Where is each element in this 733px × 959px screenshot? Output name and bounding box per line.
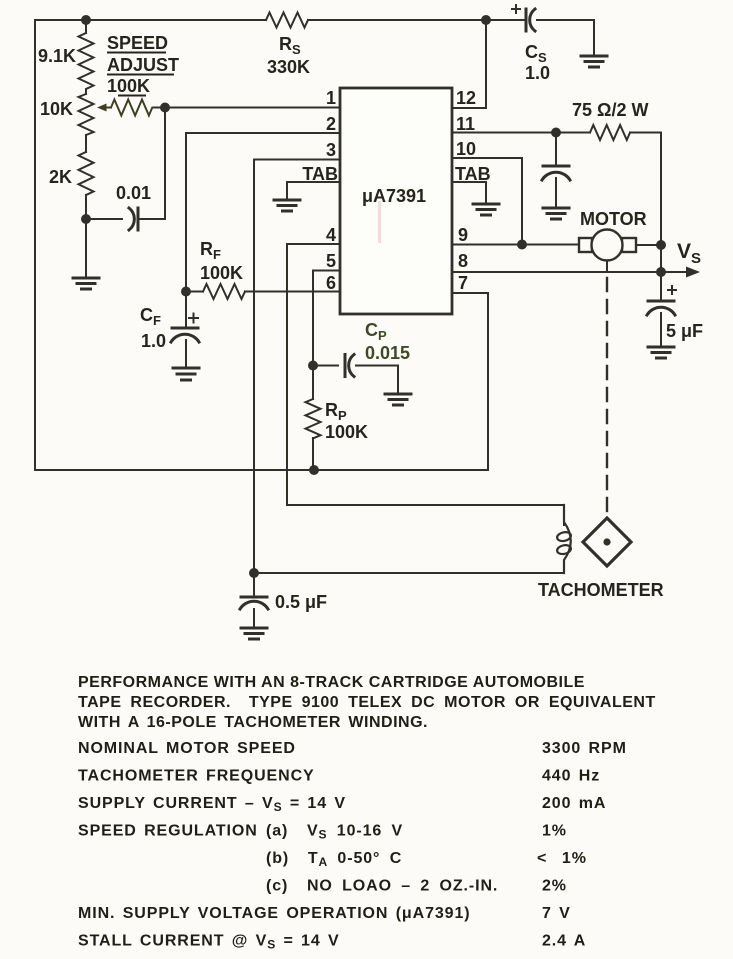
svg-text:7: 7 xyxy=(458,273,468,293)
svg-text:1%: 1% xyxy=(542,823,567,840)
svg-text:9: 9 xyxy=(458,225,468,245)
capacitor pin11 bypass xyxy=(542,133,570,209)
svg-text:3: 3 xyxy=(326,140,336,160)
IC pin numbers left xyxy=(302,88,338,293)
resistor 75ohm xyxy=(590,125,630,140)
svg-text:3300 RPM: 3300 RPM xyxy=(542,740,627,757)
resistor RF 100K xyxy=(203,284,245,299)
svg-text:(b) TA 0-50° C: (b) TA 0-50° C xyxy=(266,850,402,869)
svg-text:10K: 10K xyxy=(40,99,73,119)
svg-text:4: 4 xyxy=(326,225,336,245)
TAB right ground lead xyxy=(452,182,486,204)
wire tach bottom line xyxy=(254,572,564,574)
wire 0.01 line xyxy=(86,218,165,220)
spec stall current xyxy=(78,933,586,952)
svg-text:1.0: 1.0 xyxy=(141,331,166,351)
ground TAB left xyxy=(274,200,300,211)
capacitor 0.01 xyxy=(129,208,138,230)
svg-text:2K: 2K xyxy=(49,167,72,187)
svg-text:100K: 100K xyxy=(325,422,368,442)
svg-text:TACHOMETER: TACHOMETER xyxy=(538,580,664,600)
svg-text:SPEED REGULATION: SPEED REGULATION xyxy=(78,823,258,840)
svg-text:ADJUST: ADJUST xyxy=(107,55,179,75)
svg-text:100K: 100K xyxy=(107,76,150,96)
resistor RS 330K xyxy=(266,13,308,28)
TAB left ground lead xyxy=(287,182,340,200)
wire pin11 route xyxy=(452,133,661,246)
svg-text:1: 1 xyxy=(326,88,336,108)
svg-text:STALL CURRENT @ VS = 14 V: STALL CURRENT @ VS = 14 V xyxy=(78,933,340,952)
svg-text:1.0: 1.0 xyxy=(525,63,550,83)
svg-text:SUPPLY CURRENT – VS = 14 V: SUPPLY CURRENT – VS = 14 V xyxy=(78,795,346,814)
svg-text:PERFORMANCE WITH AN 8-TRACK CA: PERFORMANCE WITH AN 8-TRACK CARTRIDGE AU… xyxy=(78,674,585,691)
resistor 2K xyxy=(79,152,94,195)
tachometer pickup diamond xyxy=(583,518,631,566)
svg-text:WITH A 16-POLE TACHOMETER WIND: WITH A 16-POLE TACHOMETER WINDING. xyxy=(78,714,428,731)
wire RF line xyxy=(186,291,340,293)
svg-text:6: 6 xyxy=(326,273,336,293)
wire pin7 riser xyxy=(452,293,488,470)
ground 0.5uF xyxy=(241,628,267,639)
wire pin4 route xyxy=(287,244,564,525)
svg-text:8: 8 xyxy=(458,251,468,271)
spec speed regulation b xyxy=(266,850,587,869)
capacitor CF 1.0 xyxy=(171,292,199,369)
svg-text:(c) NO LOAO – 2 OZ.-IN.: (c) NO LOAO – 2 OZ.-IN. xyxy=(266,878,498,895)
motor M1 xyxy=(579,230,636,261)
performance text block xyxy=(78,674,656,952)
ground pin11 bypass xyxy=(543,208,569,219)
wire motor to VS riser xyxy=(636,245,661,272)
label SPEED ADJUST 100K xyxy=(107,33,179,96)
spec speed regulation a xyxy=(78,823,567,842)
ground 5uF xyxy=(648,347,674,358)
capacitor 0.5uF xyxy=(240,573,268,628)
wire pot junction riser xyxy=(164,108,166,220)
note paragraph xyxy=(78,674,656,731)
svg-text:0.01: 0.01 xyxy=(116,183,151,203)
IC uA7391 box xyxy=(340,88,452,314)
ground TAB right xyxy=(473,204,499,215)
wire pin3 riser xyxy=(254,160,340,574)
wire left outer xyxy=(34,20,36,470)
wire pin5 route xyxy=(313,271,340,366)
svg-text:< 1%: < 1% xyxy=(537,850,587,867)
svg-text:200 mA: 200 mA xyxy=(542,795,606,812)
spec min supply voltage xyxy=(78,905,571,922)
wire pot to pin1 xyxy=(155,107,341,109)
svg-text:TAPE RECORDER. TYPE 9100 TELE: TAPE RECORDER. TYPE 9100 TELEX DC MOTOR … xyxy=(78,694,656,711)
wire pin12 route xyxy=(452,20,486,108)
wire top rail xyxy=(35,19,486,21)
svg-text:5 μF: 5 μF xyxy=(666,321,703,341)
svg-text:9.1K: 9.1K xyxy=(38,46,76,66)
wire pin9 to motor xyxy=(452,244,579,246)
svg-text:SPEED: SPEED xyxy=(107,33,168,53)
svg-text:MIN. SUPPLY VOLTAGE OPERATION: MIN. SUPPLY VOLTAGE OPERATION (μA7391) xyxy=(78,905,471,922)
labels schematic xyxy=(38,33,703,612)
svg-text:NOMINAL MOTOR SPEED: NOMINAL MOTOR SPEED xyxy=(78,740,296,757)
resistor 10K xyxy=(79,94,94,135)
svg-text:7 V: 7 V xyxy=(542,905,571,922)
wire bottom rail xyxy=(35,469,488,471)
ground CF xyxy=(173,368,199,380)
resistor RP 100K xyxy=(306,366,321,471)
wire pin10 route xyxy=(452,158,522,245)
svg-text:TACHOMETER FREQUENCY: TACHOMETER FREQUENCY xyxy=(78,768,315,785)
ground CP xyxy=(385,394,411,405)
arrow VS xyxy=(686,267,700,278)
ground divider chain xyxy=(73,278,99,289)
capacitor CP 0.015 xyxy=(313,355,398,395)
spec speed regulation c xyxy=(266,878,567,895)
spec tachometer frequency xyxy=(78,768,600,785)
spec supply current xyxy=(78,795,606,814)
wire pin8 VS line xyxy=(452,271,696,273)
svg-text:10: 10 xyxy=(456,139,476,159)
wire pin2 route xyxy=(186,133,340,292)
scan artifact pink streak xyxy=(378,201,381,243)
svg-text:2.4 A: 2.4 A xyxy=(542,933,586,950)
svg-text:2%: 2% xyxy=(542,878,567,895)
svg-text:12: 12 xyxy=(456,88,476,108)
svg-text:5: 5 xyxy=(326,251,336,271)
capacitor 5uF xyxy=(647,272,676,347)
wire divider chain xyxy=(85,20,87,278)
svg-text:440 Hz: 440 Hz xyxy=(542,768,600,785)
IC pin numbers right xyxy=(455,88,491,293)
potentiometer 100K speed adjust xyxy=(97,100,165,116)
svg-text:330K: 330K xyxy=(267,57,310,77)
svg-text:11: 11 xyxy=(456,114,475,134)
svg-text:μA7391: μA7391 xyxy=(362,186,426,206)
resistor 9.1K xyxy=(79,33,94,89)
svg-text:2: 2 xyxy=(326,114,336,134)
spec nominal motor speed xyxy=(78,740,627,757)
svg-text:TAB: TAB xyxy=(302,164,338,184)
svg-text:100K: 100K xyxy=(200,263,243,283)
capacitor CS 1.0 xyxy=(486,5,594,56)
svg-text:TAB: TAB xyxy=(455,164,491,184)
svg-text:0.5 μF: 0.5 μF xyxy=(275,592,327,612)
inductor tach coil xyxy=(556,505,571,573)
svg-text:75 Ω/2 W: 75 Ω/2 W xyxy=(572,100,648,120)
svg-text:0.015: 0.015 xyxy=(365,343,410,363)
svg-text:MOTOR: MOTOR xyxy=(580,209,647,229)
wire motor tach dashed xyxy=(606,261,608,518)
ground CS xyxy=(581,56,607,67)
svg-text:(a) VS 10-16 V: (a) VS 10-16 V xyxy=(266,823,403,842)
